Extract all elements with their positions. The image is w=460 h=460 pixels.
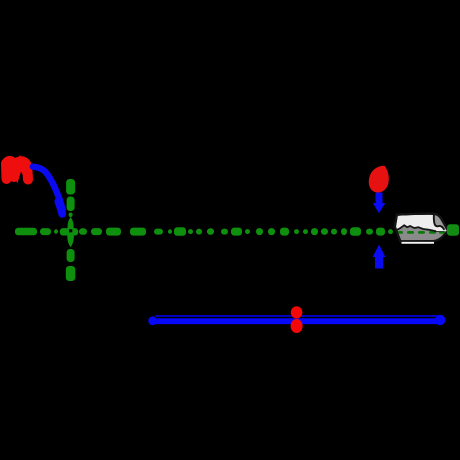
cone shape lower gray region (395, 225, 447, 241)
axis cross intersection blob (60, 217, 78, 247)
blue up arrow below axis (373, 245, 386, 269)
green end blob (right of cone tip) (447, 224, 459, 236)
blue down arrow above axis (373, 193, 385, 214)
cone shape outline re-stroke (395, 214, 448, 242)
cone/crayon shape white body (395, 214, 448, 242)
horizontal axis green dashed line (15, 227, 393, 236)
cone shape curl stroke (434, 214, 444, 229)
thick blue line (bottom) (148, 315, 445, 325)
cone shape jagged tear line (395, 225, 444, 231)
blue diagonal stroke (33, 167, 63, 214)
red knob on bottom line (291, 306, 303, 333)
cone tip white crescent (436, 228, 448, 231)
red scribble label (top-left) (6, 161, 30, 180)
thin blue line (bottom) (155, 315, 437, 317)
vertical axis green dashed line (66, 179, 76, 281)
cone shape bottom white highlight (402, 242, 435, 244)
dim green dashes across cone (396, 231, 445, 234)
red balloon blob (top right) (369, 166, 389, 193)
cone shape curl shadow (gray wedge right) (434, 214, 448, 231)
